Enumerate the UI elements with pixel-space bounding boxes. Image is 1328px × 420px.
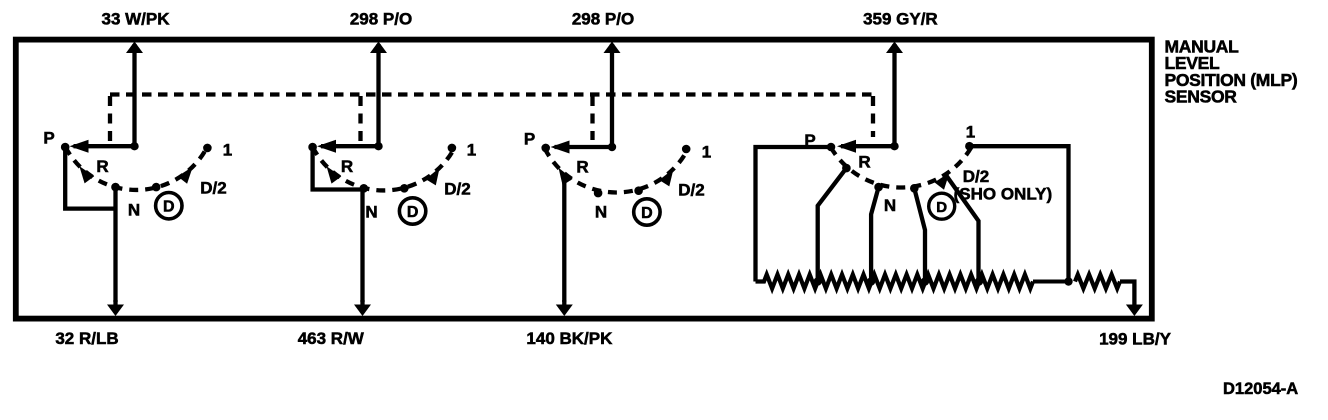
svg-text:N: N — [128, 201, 140, 220]
MLP sensor boundary box — [16, 40, 1152, 319]
switch S4 wire P to ladder left side — [756, 147, 832, 282]
switch S3 label R — [576, 158, 588, 177]
switch S2 label D/2 — [444, 180, 470, 199]
switch S1 label 1 — [223, 141, 232, 160]
wire 298 P/O (top lead) — [350, 10, 412, 148]
gang link drop to switch S2 — [358, 96, 362, 141]
switch S3 wiper arrow from supply — [551, 141, 617, 154]
switch S2 wiper arrow from supply — [317, 140, 383, 153]
switch S3 contact P — [541, 144, 550, 153]
wire 32 R/LB (bottom lead) — [55, 300, 124, 348]
switch S4 contact arc (dashed) — [831, 147, 972, 187]
switch S2 contact N — [360, 184, 369, 193]
wire 298 P/O (top lead) — [572, 10, 634, 148]
svg-text:199 LB/Y: 199 LB/Y — [1099, 330, 1171, 349]
switch S3 D/2 contact wedge — [659, 169, 673, 187]
switch S3 label 1 — [702, 143, 711, 162]
switch S1 D/2 contact wedge — [178, 167, 193, 184]
svg-text:463 R/W: 463 R/W — [298, 329, 365, 348]
switch S4 wire D tap — [914, 188, 925, 281]
switch S4 label D/2 — [963, 167, 989, 186]
figure number D12054-A — [1223, 380, 1298, 398]
svg-text:R: R — [341, 157, 353, 176]
switch S4 circled D label — [929, 193, 955, 219]
switch S1 R contact wedge — [79, 166, 94, 183]
wire 33 W/PK (top lead) — [101, 10, 170, 148]
svg-text:N: N — [595, 203, 607, 222]
svg-text:1: 1 — [223, 141, 232, 160]
svg-text:R: R — [576, 158, 588, 177]
switch S4 contact D — [910, 184, 919, 193]
switch S2 contact P — [308, 143, 317, 152]
switch S4 D/2 contact wedge — [935, 173, 950, 190]
switch S2 circled D label — [399, 198, 425, 224]
switch S3 circled D label — [634, 199, 660, 225]
switch S1 wire P to N output — [65, 147, 115, 209]
switch S3 contact N — [594, 189, 603, 198]
svg-text:140 BK/PK: 140 BK/PK — [526, 329, 613, 348]
svg-text:D: D — [936, 199, 947, 216]
resistor R6 (output side) — [1075, 275, 1120, 289]
switch S2 label N — [365, 203, 377, 222]
svg-text:33 W/PK: 33 W/PK — [101, 10, 170, 29]
switch S3 contact D — [634, 186, 643, 195]
switch S4 wire N tap — [871, 187, 879, 281]
svg-text:SENSOR: SENSOR — [1165, 87, 1238, 107]
switch S4 label R — [858, 153, 870, 172]
switch S4 contact R — [842, 164, 851, 173]
svg-text:D: D — [407, 204, 419, 221]
switch S4 wire D/2 tap — [945, 174, 978, 282]
svg-text:1: 1 — [702, 143, 711, 162]
switch S1 circled D label — [156, 193, 182, 219]
svg-text:D/2: D/2 — [678, 181, 704, 200]
gang link drop to switch S4 — [871, 96, 875, 137]
switch S4 label (SHO ONLY) — [954, 185, 1053, 204]
svg-text:D: D — [641, 205, 653, 222]
svg-text:(SHO ONLY): (SHO ONLY) — [954, 185, 1053, 204]
switch S4 label N — [884, 196, 896, 215]
switch S2 output wire — [360, 188, 364, 302]
switch S2 label 1 — [467, 141, 476, 160]
switch S1 contact D — [152, 183, 161, 192]
switch S3 output wire — [562, 176, 566, 302]
svg-text:P: P — [804, 131, 815, 150]
svg-text:D12054-A: D12054-A — [1223, 380, 1298, 398]
ladder junction at x=979 — [975, 277, 983, 285]
switch S4 contact 1 — [965, 142, 974, 151]
switch S2 D/2 contact wedge — [426, 168, 440, 186]
switch S2 contact D — [400, 184, 409, 193]
svg-text:P: P — [524, 130, 535, 149]
gang link drop to switch S3 — [590, 96, 594, 140]
switch S4 label P — [804, 131, 815, 150]
svg-text:298 P/O: 298 P/O — [350, 10, 412, 29]
wire 199 LB/Y (bottom lead) — [1099, 282, 1171, 349]
switch S1 label R — [96, 157, 108, 176]
switch S2 contact arc (dashed) — [313, 147, 454, 190]
svg-text:298 P/O: 298 P/O — [572, 10, 634, 29]
switch S4 contact N — [874, 183, 883, 192]
label MANUAL LEVEL POSITION (MLP) SENSOR — [1165, 37, 1298, 107]
ladder junction at x=925 — [921, 277, 929, 285]
wire 140 BK/PK (bottom lead) — [526, 300, 613, 348]
switch S1 contact N — [111, 183, 120, 192]
svg-text:N: N — [365, 203, 377, 222]
resistor chain R1-R5 (P to 1 side) — [756, 275, 1034, 289]
svg-text:359 GY/R: 359 GY/R — [863, 10, 938, 29]
switch S3 R contact wedge — [559, 168, 573, 186]
switch S3 contact 1 — [682, 145, 691, 154]
svg-text:D: D — [163, 199, 175, 216]
switch S3 label D/2 — [678, 181, 704, 200]
switch S1 contact arc (dashed) — [65, 147, 207, 190]
svg-text:R: R — [96, 157, 108, 176]
svg-text:1: 1 — [467, 141, 476, 160]
switch S2 R contact wedge — [327, 166, 342, 183]
ladder junction at x=871.1 — [867, 277, 875, 285]
switch S4 wire R tap — [818, 168, 847, 281]
wire 359 GY/R (top lead) — [863, 10, 938, 148]
svg-text:1: 1 — [966, 123, 975, 142]
switch S1 label N — [128, 201, 140, 220]
switch S2 label R — [341, 157, 353, 176]
switch S1 contact 1 — [203, 144, 212, 153]
svg-text:D/2: D/2 — [200, 179, 226, 198]
ladder junction at x=1068.5 — [1064, 277, 1072, 285]
switch S2 wire P to N output — [313, 147, 363, 189]
wire 463 R/W (bottom lead) — [298, 300, 371, 348]
switch S4 label 1 — [966, 123, 975, 142]
switch S1 label D/2 — [200, 179, 226, 198]
svg-text:R: R — [858, 153, 870, 172]
switch S3 label P — [524, 130, 535, 149]
switch S2 contact 1 — [448, 144, 457, 153]
svg-text:P: P — [43, 129, 54, 148]
switch S1 label P — [43, 129, 54, 148]
switch S1 contact P — [61, 143, 70, 152]
dashed gang link bus — [110, 92, 873, 96]
switch S1 output wire — [113, 187, 117, 302]
ladder junction at x=817.7 — [814, 277, 822, 285]
switch S3 label N — [595, 203, 607, 222]
svg-text:D/2: D/2 — [963, 167, 989, 186]
wire ladder to node 1 side — [1033, 280, 1069, 284]
switch S4 contact P — [827, 143, 836, 152]
switch S4 wire 1 to ladder right side — [969, 146, 1068, 281]
svg-text:D/2: D/2 — [444, 180, 470, 199]
switch S1 wiper arrow from supply — [70, 140, 139, 153]
gang link drop to switch S1 — [108, 96, 112, 141]
svg-text:N: N — [884, 196, 896, 215]
switch S4 wiper arrow from supply — [837, 140, 899, 153]
switch S3 contact arc (dashed) — [545, 148, 688, 192]
svg-text:32 R/LB: 32 R/LB — [55, 329, 118, 348]
